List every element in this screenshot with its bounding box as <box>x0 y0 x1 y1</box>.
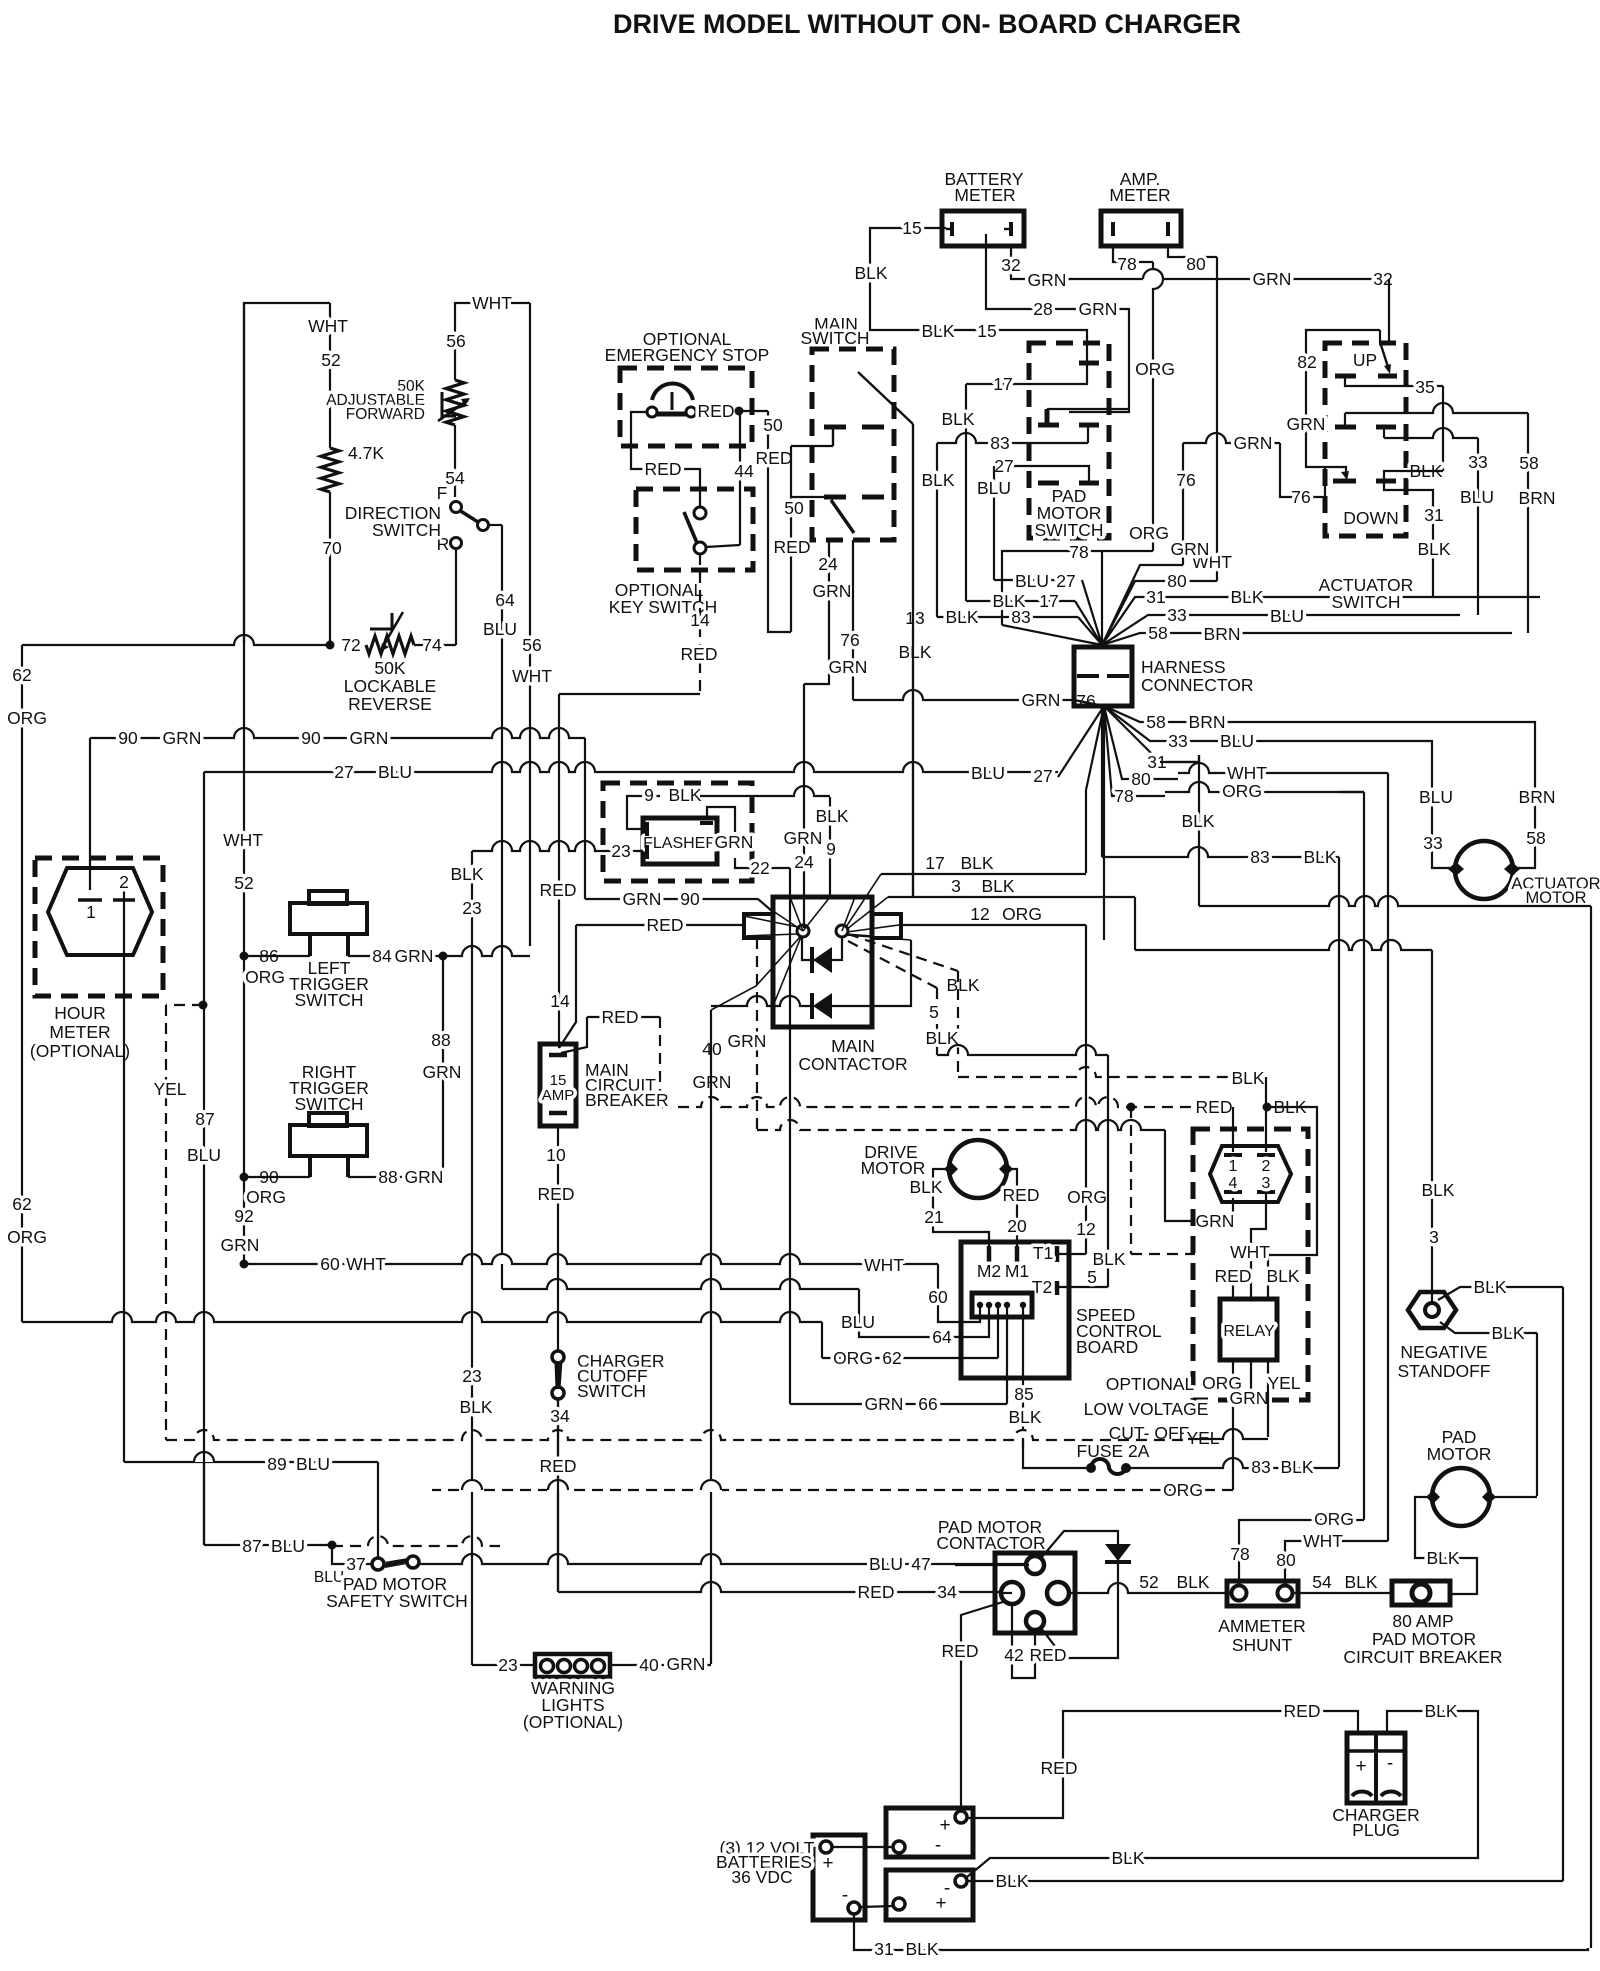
wire 28 pin stub <box>1047 408 1129 410</box>
svg-text:GRN: GRN <box>1022 690 1061 710</box>
svg-text:47: 47 <box>911 1554 930 1574</box>
svg-text:58: 58 <box>1146 712 1165 732</box>
main contactor <box>773 897 872 1027</box>
flasher <box>643 818 717 864</box>
svg-text:GRN: GRN <box>405 1167 444 1187</box>
svg-text:METER: METER <box>49 1022 110 1042</box>
svg-text:LOW VOLTAGE: LOW VOLTAGE <box>1084 1399 1209 1419</box>
re-draw humps on ORG dashed <box>461 1480 483 1492</box>
harness bottom fan <box>1103 706 1105 940</box>
svg-text:GRN: GRN <box>221 1235 260 1255</box>
svg-text:82: 82 <box>1297 352 1316 372</box>
svg-text:GRN: GRN <box>1234 433 1273 453</box>
svg-text:21: 21 <box>924 1207 943 1227</box>
svg-text:56: 56 <box>446 331 465 351</box>
wire 54 BLK <box>1292 1592 1392 1594</box>
svg-text:GRN: GRN <box>715 832 754 852</box>
svg-text:92: 92 <box>234 1206 253 1226</box>
wire BLK battery3 to charger plug <box>967 1711 1478 1877</box>
svg-text:GRN: GRN <box>667 1654 706 1674</box>
wire BLU 47 <box>419 1554 1029 1564</box>
flasher dashed box <box>603 783 752 881</box>
svg-text:34: 34 <box>937 1582 957 1602</box>
svg-text:31: 31 <box>1424 505 1443 525</box>
contactor fan lines left <box>803 897 830 931</box>
wire 87 BLU rail <box>203 772 205 1545</box>
svg-text:50K: 50K <box>374 658 405 678</box>
svg-text:GRN: GRN <box>623 889 662 909</box>
svg-text:80: 80 <box>1131 769 1151 789</box>
relay pins RED <box>1232 1269 1234 1299</box>
flasher top pin wire <box>707 807 735 832</box>
svg-text:BLK: BLK <box>1092 1249 1125 1269</box>
svg-text:RED: RED <box>602 1007 639 1027</box>
wire 88 GRN lower <box>348 1176 443 1178</box>
wire GRN to hexagon pin4 <box>1165 1130 1233 1221</box>
svg-text:20: 20 <box>1007 1216 1027 1236</box>
node dot 44 <box>735 407 744 416</box>
wire 50 RED down-up to main switch <box>768 411 791 632</box>
svg-text:GRN: GRN <box>784 828 823 848</box>
svg-text:32: 32 <box>1001 255 1020 275</box>
svg-text:BLK: BLK <box>960 853 993 873</box>
svg-text:BLK: BLK <box>450 864 483 884</box>
wire RED contactor coil drop <box>559 925 576 1048</box>
svg-text:15: 15 <box>977 321 996 341</box>
svg-text:50: 50 <box>784 498 804 518</box>
svg-text:5: 5 <box>929 1002 939 1022</box>
svg-text:SWITCH: SWITCH <box>294 990 363 1010</box>
svg-text:80: 80 <box>1276 1550 1296 1570</box>
wire 62 ORG <box>22 1312 822 1322</box>
svg-text:BLK: BLK <box>1266 1266 1299 1286</box>
wire BLK dashed from contactor to hexagon pin2 <box>848 934 958 971</box>
wire 78 ORG from amp meter <box>1113 246 1153 262</box>
svg-text:ORG: ORG <box>1002 904 1042 924</box>
relay bottom pins <box>1232 1360 1234 1490</box>
svg-text:F: F <box>437 483 448 503</box>
wire 35 <box>1345 376 1443 386</box>
svg-text:BLK: BLK <box>1421 1180 1454 1200</box>
svg-text:GRN: GRN <box>350 728 389 748</box>
svg-text:54: 54 <box>445 468 465 488</box>
svg-text:BLU: BLU <box>187 1145 221 1165</box>
svg-text:10: 10 <box>546 1145 566 1165</box>
wire 74 <box>414 644 456 646</box>
wire 56 WHT right loop <box>455 303 530 380</box>
svg-text:24: 24 <box>794 852 814 872</box>
wire 15 BLK <box>870 228 1087 361</box>
optional key switch <box>636 489 753 570</box>
svg-text:GRN: GRN <box>1253 269 1292 289</box>
svg-text:54: 54 <box>1312 1572 1332 1592</box>
dashed lines from contactor <box>660 1097 1233 1107</box>
wire 17 BLK drop <box>965 384 967 601</box>
diode pad contactor <box>1041 1531 1118 1558</box>
harness top fan right side <box>1102 597 1540 645</box>
svg-text:58: 58 <box>1148 623 1167 643</box>
svg-text:METER: METER <box>954 185 1015 205</box>
svg-text:RED: RED <box>1196 1097 1233 1117</box>
wire 76 GRN harness to actuator <box>1102 565 1183 645</box>
svg-text:-: - <box>1387 1753 1393 1774</box>
svg-text:ORG: ORG <box>1067 1187 1107 1207</box>
svg-text:DOWN: DOWN <box>1343 508 1398 528</box>
main circuit breaker 15 AMP <box>540 1044 576 1126</box>
svg-text:83: 83 <box>1251 1457 1270 1477</box>
charger cutoff switch <box>557 1353 559 1592</box>
svg-text:CONTACTOR: CONTACTOR <box>936 1533 1045 1553</box>
svg-text:BLK: BLK <box>995 1871 1028 1891</box>
wire 40 GRN to warning lights <box>710 1010 712 1664</box>
svg-text:GRN: GRN <box>1028 270 1067 290</box>
svg-text:76: 76 <box>1291 487 1310 507</box>
wire 80 WHT from amp meter <box>1168 246 1217 257</box>
svg-text:-: - <box>842 1885 848 1906</box>
svg-text:80: 80 <box>1186 254 1206 274</box>
svg-text:52: 52 <box>234 873 253 893</box>
svg-text:15: 15 <box>902 218 921 238</box>
wire 32 GRN to UP blade <box>1388 279 1390 342</box>
svg-text:62: 62 <box>12 1194 31 1214</box>
svg-text:RED: RED <box>538 1184 575 1204</box>
svg-text:BRN: BRN <box>1204 624 1241 644</box>
svg-text:BOARD: BOARD <box>1076 1337 1138 1357</box>
svg-text:14: 14 <box>550 991 570 1011</box>
svg-text:RED: RED <box>698 401 735 421</box>
svg-text:3: 3 <box>951 876 961 896</box>
dashed GRN line lower <box>757 1120 1070 1130</box>
svg-text:62: 62 <box>882 1348 901 1368</box>
wire 31 BLK <box>1384 481 1433 597</box>
wire 33 BLU to actuator motor <box>1414 741 1450 868</box>
svg-text:RED: RED <box>774 537 811 557</box>
wire T1 to ORG <box>1059 1253 1086 1255</box>
pad motor switch <box>1029 343 1109 538</box>
svg-text:33: 33 <box>1168 731 1187 751</box>
svg-text:37: 37 <box>346 1554 365 1574</box>
svg-text:(OPTIONAL): (OPTIONAL) <box>523 1712 623 1732</box>
wire 90 GRN drop to contactor <box>584 738 586 899</box>
svg-text:22: 22 <box>750 858 769 878</box>
wire 52 BLK <box>1081 1583 1227 1593</box>
svg-text:GRN: GRN <box>1196 1211 1235 1231</box>
svg-text:NEGATIVE: NEGATIVE <box>1400 1342 1487 1362</box>
svg-text:78: 78 <box>1230 1544 1249 1564</box>
svg-text:33: 33 <box>1167 605 1186 625</box>
svg-text:FLASHER: FLASHER <box>643 835 717 852</box>
wire BLU 47 into contactor <box>1026 1564 1029 1566</box>
wire 27 BLU horizontal <box>204 762 1058 772</box>
svg-text:BLK: BLK <box>1417 539 1450 559</box>
svg-text:23: 23 <box>498 1655 517 1675</box>
wire 5 BLK dashed from contactor to T2 <box>848 941 937 988</box>
svg-text:BLU: BLU <box>971 763 1005 783</box>
wire to 33 BLU <box>1383 427 1385 438</box>
wire WHT long vertical <box>1340 772 1388 774</box>
svg-text:50: 50 <box>763 415 783 435</box>
wire 80 to harness <box>1102 581 1217 645</box>
wire 76 GRN from main switch <box>852 540 854 700</box>
svg-text:74: 74 <box>422 635 442 655</box>
svg-text:BLU: BLU <box>483 619 517 639</box>
node dashed junction <box>1127 1103 1136 1112</box>
ammeter shunt <box>1227 1581 1298 1606</box>
svg-text:BLK: BLK <box>898 642 931 662</box>
svg-text:35: 35 <box>1415 377 1434 397</box>
wire T2 5 BLK <box>1059 1286 1108 1288</box>
svg-text:METER: METER <box>1109 185 1170 205</box>
node junction 90 <box>240 1173 249 1182</box>
svg-text:REVERSE: REVERSE <box>348 694 432 714</box>
warning lights <box>535 1654 610 1677</box>
wire 23 BLK rail <box>471 851 473 1665</box>
svg-text:4: 4 <box>1229 1175 1238 1192</box>
node junction 86 <box>240 952 249 961</box>
svg-text:62: 62 <box>12 665 31 685</box>
wire 83 BLK long vertical <box>1338 857 1340 1467</box>
svg-text:BLU: BLU <box>271 1536 305 1556</box>
svg-text:60: 60 <box>928 1287 948 1307</box>
svg-text:90: 90 <box>301 728 321 748</box>
wire estop right RED 50 <box>697 410 768 412</box>
svg-text:RED: RED <box>540 1456 577 1476</box>
wire 89 BLU <box>124 1461 378 1463</box>
svg-text:85: 85 <box>1014 1384 1033 1404</box>
svg-text:CONTACTOR: CONTACTOR <box>798 1054 907 1074</box>
wire 24 GRN into contactor <box>803 904 805 928</box>
wire 42 RED loop <box>1012 1604 1035 1678</box>
svg-text:64: 64 <box>932 1327 952 1347</box>
svg-text:GRN: GRN <box>1230 1388 1269 1408</box>
svg-text:+: + <box>1355 1756 1366 1777</box>
wire 34 into contactor <box>1001 1592 1012 1594</box>
wire pad motor left BLK <box>1415 1497 1477 1594</box>
wire 13 BLK lower <box>912 424 914 897</box>
svg-text:ORG: ORG <box>245 967 285 987</box>
wire ORG down to T1 <box>1085 925 1087 1254</box>
svg-text:RED: RED <box>942 1641 979 1661</box>
svg-text:SAFETY SWITCH: SAFETY SWITCH <box>326 1591 468 1611</box>
svg-text:17: 17 <box>925 853 944 873</box>
wire 84 GRN <box>348 955 443 957</box>
svg-text:36 VDC: 36 VDC <box>731 1867 792 1887</box>
wire through diode2 <box>711 996 812 1006</box>
svg-text:(OPTIONAL): (OPTIONAL) <box>30 1041 130 1061</box>
svg-text:RED: RED <box>1041 1758 1078 1778</box>
svg-text:14: 14 <box>690 610 710 630</box>
svg-text:PLUG: PLUG <box>1352 1820 1400 1840</box>
svg-text:BLK: BLK <box>1231 1068 1264 1088</box>
svg-text:BRN: BRN <box>1519 787 1556 807</box>
svg-text:YEL: YEL <box>153 1079 186 1099</box>
svg-text:76: 76 <box>1176 470 1195 490</box>
svg-text:AMMETER: AMMETER <box>1218 1616 1306 1636</box>
svg-text:ORG: ORG <box>1163 1480 1203 1500</box>
relay <box>1220 1299 1277 1360</box>
svg-text:1: 1 <box>86 902 96 922</box>
harness top fan wires <box>994 579 1066 581</box>
wire R to 74 line <box>455 548 457 645</box>
svg-text:12: 12 <box>970 904 989 924</box>
wire 82 loop <box>1306 330 1380 474</box>
svg-text:66: 66 <box>918 1394 937 1414</box>
svg-text:87: 87 <box>242 1536 261 1556</box>
svg-text:BLK: BLK <box>981 876 1014 896</box>
svg-text:31: 31 <box>1146 587 1165 607</box>
svg-text:UP: UP <box>1353 350 1377 370</box>
wire RED 34 to pad contactor <box>558 1582 1012 1592</box>
svg-text:BLK: BLK <box>1426 1548 1459 1568</box>
wire 20 RED <box>1006 1169 1017 1246</box>
svg-text:58: 58 <box>1519 453 1538 473</box>
wire 3 BLK contactor <box>888 896 1135 898</box>
diode 2 <box>810 993 814 1019</box>
wire YEL dashed <box>166 1004 203 1006</box>
left trigger switch <box>244 955 310 957</box>
svg-text:PAD MOTOR: PAD MOTOR <box>1372 1629 1476 1649</box>
svg-text:LOCKABLE: LOCKABLE <box>344 676 436 696</box>
wire BLK to relay detour <box>1267 1107 1317 1299</box>
wire 32 GRN <box>1011 246 1389 279</box>
80 amp pad motor circuit breaker <box>1392 1581 1450 1605</box>
wire 17 into pad switch <box>966 365 1087 384</box>
wire WHT to shunt 80 <box>1285 1541 1388 1586</box>
svg-text:WHT: WHT <box>223 830 263 850</box>
svg-text:RED: RED <box>540 880 577 900</box>
svg-text:GRN: GRN <box>423 1062 462 1082</box>
wire 56 WHT vertical rail <box>529 303 531 946</box>
svg-text:WHT: WHT <box>1303 1531 1343 1551</box>
svg-text:1: 1 <box>1229 1158 1238 1175</box>
svg-text:BLU: BLU <box>841 1312 875 1332</box>
hour meter (optional) <box>35 858 163 996</box>
actuator motor <box>1455 841 1513 899</box>
diode 1 <box>802 937 812 960</box>
wire RED battery to charger <box>967 1711 1358 1818</box>
svg-text:78: 78 <box>1069 542 1088 562</box>
re-draw hump 89 over 204 <box>193 1451 215 1462</box>
svg-text:HOUR: HOUR <box>54 1003 106 1023</box>
svg-text:64: 64 <box>495 590 515 610</box>
svg-text:GRN: GRN <box>1171 539 1210 559</box>
svg-text:M1: M1 <box>1005 1261 1029 1281</box>
svg-text:BLU: BLU <box>977 478 1011 498</box>
wire 66 GRN <box>790 1403 1007 1405</box>
svg-text:RED: RED <box>1215 1266 1252 1286</box>
wire BLK right edge down <box>1590 906 1592 1948</box>
wire 60 WHT <box>244 1254 938 1264</box>
svg-text:SWITCH: SWITCH <box>577 1381 646 1401</box>
svg-text:BLK: BLK <box>1008 1407 1041 1427</box>
wire WHT 52 top loop <box>244 303 330 645</box>
wire 85 BLK <box>1022 1308 1024 1420</box>
wire 62 ORG left rail <box>21 645 23 1322</box>
wire BLK from 31 corner down <box>1198 755 1200 906</box>
svg-text:BLK: BLK <box>459 1397 492 1417</box>
wire 52 WHT mid rail <box>243 303 245 1264</box>
svg-text:YEL: YEL <box>1267 1373 1300 1393</box>
DOWN pins <box>1333 479 1356 484</box>
svg-text:BLK: BLK <box>909 1177 942 1197</box>
svg-text:GRN: GRN <box>829 657 868 677</box>
wire 83 BLK from fuse <box>1126 1458 1339 1468</box>
battery 3 <box>886 1870 973 1920</box>
wire RED dashed to hexagon pin1 <box>1232 1107 1234 1152</box>
svg-text:STANDOFF: STANDOFF <box>1397 1361 1490 1381</box>
wire BLK battery3 to standoff line <box>967 1880 1563 1882</box>
wire 50 into main switch <box>791 496 824 498</box>
svg-text:FORWARD: FORWARD <box>346 406 425 423</box>
svg-text:BLK: BLK <box>1181 811 1214 831</box>
wire GRN 76 to harness <box>853 690 1074 700</box>
svg-text:ORG: ORG <box>1222 781 1262 801</box>
svg-text:SWITCH: SWITCH <box>1034 520 1103 540</box>
wire 78 to harness <box>1002 551 1153 625</box>
svg-text:23: 23 <box>611 841 630 861</box>
svg-text:12: 12 <box>1076 1219 1095 1239</box>
wire RED dashed branch <box>561 1017 587 1053</box>
wire BLK standoff lower <box>1440 1322 1537 1333</box>
svg-text:BLU: BLU <box>1270 606 1304 626</box>
rheostat 50K ADJUSTABLE FORWARD <box>446 380 464 425</box>
wire estop left to key switch RED <box>631 412 700 507</box>
svg-text:BLK: BLK <box>921 321 954 341</box>
wire 72 horizontal run <box>22 635 330 645</box>
svg-text:58: 58 <box>1526 828 1545 848</box>
svg-text:RED: RED <box>647 915 684 935</box>
svg-text:BLK: BLK <box>1424 1701 1457 1721</box>
svg-text:60: 60 <box>320 1254 340 1274</box>
svg-text:78: 78 <box>1114 786 1133 806</box>
svg-text:BLK: BLK <box>1111 1848 1144 1868</box>
svg-text:ORG: ORG <box>1314 1509 1354 1529</box>
svg-text:33: 33 <box>1468 452 1487 472</box>
svg-text:WHT: WHT <box>1227 763 1267 783</box>
charger plug <box>1347 1733 1405 1803</box>
svg-text:83: 83 <box>1250 847 1269 867</box>
wire 85 to fuse <box>1023 1440 1086 1468</box>
svg-text:24: 24 <box>818 554 838 574</box>
svg-text:GRN: GRN <box>865 1394 904 1414</box>
svg-text:BLU: BLU <box>314 1569 344 1586</box>
svg-text:SWITCH: SWITCH <box>372 520 441 540</box>
wire 21 BLK <box>933 1169 989 1246</box>
wire 3 BLK to negative standoff <box>1135 940 1432 950</box>
svg-text:28: 28 <box>1033 299 1052 319</box>
svg-text:RED: RED <box>756 448 793 468</box>
svg-text:+: + <box>822 1853 833 1874</box>
wire to 58 BRN <box>1344 413 1346 427</box>
svg-text:BRN: BRN <box>1189 712 1226 732</box>
node junction 84/88 <box>439 952 448 961</box>
svg-text:88: 88 <box>431 1030 450 1050</box>
wire 12 ORG contactor <box>899 924 1086 926</box>
svg-text:BLU: BLU <box>296 1454 330 1474</box>
svg-text:BLK: BLK <box>1491 1323 1524 1343</box>
svg-text:17: 17 <box>993 374 1012 394</box>
svg-text:BREAKER: BREAKER <box>585 1090 669 1110</box>
svg-text:SHUNT: SHUNT <box>1232 1635 1293 1655</box>
svg-text:BLU: BLU <box>1220 731 1254 751</box>
svg-text:27: 27 <box>1033 766 1052 786</box>
svg-text:ORG: ORG <box>1135 359 1175 379</box>
svg-text:+: + <box>935 1893 946 1914</box>
svg-text:GRN: GRN <box>395 946 434 966</box>
svg-text:27: 27 <box>334 762 353 782</box>
svg-text:90: 90 <box>118 728 138 748</box>
wire main switch upper pin left <box>791 445 833 447</box>
